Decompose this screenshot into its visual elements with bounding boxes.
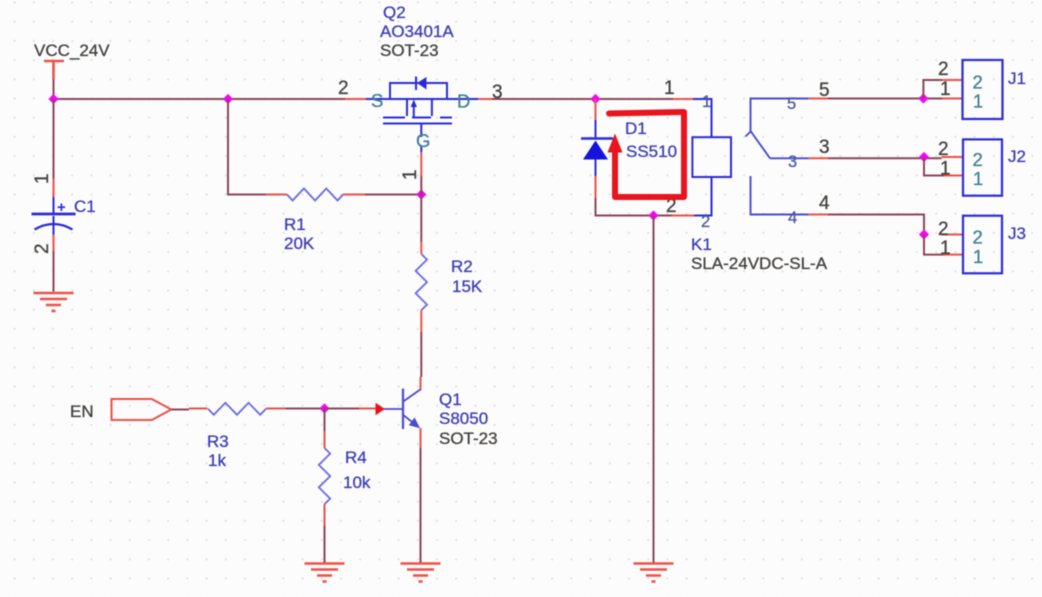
svg-text:+: +	[57, 199, 66, 216]
node junction D1 branch	[590, 94, 600, 104]
wire R1 to gate node	[365, 194, 421, 196]
svg-text:2: 2	[701, 213, 710, 231]
wire VCC stem	[53, 79, 55, 99]
pin lead R3 right	[266, 408, 285, 410]
node junction K1 ground branch	[648, 210, 658, 220]
annotation red arrow at base	[376, 403, 386, 415]
wire coil bottom to D1	[596, 198, 673, 216]
svg-text:1: 1	[940, 79, 951, 100]
node junction J3	[919, 229, 929, 239]
diode D1 triangle	[583, 141, 608, 160]
relay K1 coil	[692, 137, 731, 177]
svg-text:5: 5	[787, 95, 796, 113]
pin lead of R1 right	[343, 194, 365, 196]
wire gate to junction	[420, 176, 422, 195]
svg-text:2: 2	[938, 59, 949, 80]
wire coil pin1 blue	[693, 99, 712, 137]
pin lead K1 coil 2	[672, 215, 694, 217]
wire emitter to ground	[420, 448, 422, 564]
pin lead switch 4	[809, 214, 828, 216]
svg-text:D1: D1	[625, 119, 647, 138]
resistor R1	[287, 189, 343, 201]
resistor R4	[319, 448, 330, 504]
node junction at VCC	[48, 94, 58, 104]
svg-text:1: 1	[973, 168, 983, 189]
node junction R3/R4/base	[319, 403, 329, 413]
pin 1 of C1 (red lead)	[53, 179, 55, 198]
annotation red highlight loop	[609, 112, 684, 197]
pin lead of R1 left	[266, 194, 287, 196]
pin lead collector Q1	[420, 377, 422, 391]
wire main rail left	[54, 98, 346, 100]
svg-text:1: 1	[32, 173, 53, 184]
transistor Q1 NPN	[384, 389, 420, 430]
svg-text:1k: 1k	[208, 451, 226, 470]
wire R4 to ground	[324, 525, 326, 563]
svg-text:SOT-23: SOT-23	[439, 429, 498, 448]
svg-text:S8050: S8050	[439, 409, 488, 428]
capacitor C1	[32, 197, 76, 235]
svg-text:SLA-24VDC-SL-A: SLA-24VDC-SL-A	[691, 254, 828, 273]
svg-text:2: 2	[938, 219, 949, 240]
pin lead D of Q2	[478, 98, 492, 100]
pin lead R2 bottom	[420, 310, 422, 332]
wire junction to R2	[420, 195, 422, 243]
pin lead J3 pin2	[942, 234, 964, 236]
pin lead J2 pin1	[944, 175, 963, 177]
pin lead D1 bottom red	[595, 176, 597, 198]
svg-text:AO3401A: AO3401A	[380, 22, 454, 41]
svg-text:R3: R3	[207, 432, 229, 451]
svg-text:VCC_24V: VCC_24V	[34, 41, 110, 60]
transistor Q2 PMOS body	[366, 77, 478, 153]
svg-text:C1: C1	[74, 197, 96, 216]
pin lead J3 pin1	[943, 254, 963, 256]
wire junction to R4	[324, 409, 326, 432]
resistor R3	[208, 403, 266, 415]
ground below R4	[305, 564, 345, 582]
svg-text:SS510: SS510	[626, 142, 677, 161]
svg-text:R2: R2	[451, 257, 473, 276]
wire switch5 to J1	[828, 98, 942, 100]
svg-text:K1: K1	[691, 235, 712, 254]
pin lead switch 5	[809, 98, 828, 100]
svg-text:10k: 10k	[343, 473, 371, 492]
svg-text:1: 1	[973, 91, 983, 112]
svg-text:20K: 20K	[284, 234, 315, 253]
pin lead J2 pin2	[942, 156, 964, 158]
body diode arrow of Q2	[417, 77, 427, 90]
node junction J2	[919, 152, 929, 162]
pin lead R4 bottom	[324, 504, 326, 525]
pin lead D1 top red	[595, 99, 597, 120]
pin lead R4 top	[324, 431, 326, 448]
annotation red arrow head	[608, 134, 623, 153]
node junction J1	[918, 93, 928, 103]
node junction at R1 branch	[223, 94, 233, 104]
svg-text:2: 2	[338, 78, 349, 99]
wire R1 branch vertical	[228, 99, 266, 195]
svg-text:2: 2	[973, 227, 983, 248]
svg-text:3: 3	[788, 153, 797, 171]
svg-text:2: 2	[938, 139, 949, 160]
wire J1 branch up	[923, 80, 942, 99]
svg-text:1: 1	[940, 159, 951, 180]
svg-text:4: 4	[788, 209, 797, 227]
svg-text:1: 1	[400, 169, 421, 180]
relay K1 switch common	[746, 99, 809, 215]
power symbol VCC_24V bar	[44, 61, 64, 79]
connector J2	[963, 139, 1002, 195]
svg-text:J2: J2	[1008, 147, 1026, 166]
port EN symbol	[112, 399, 172, 420]
ground below K1	[634, 564, 674, 582]
connector J1	[963, 60, 1003, 119]
svg-text:1: 1	[664, 78, 675, 99]
wire coil pin2 blue	[694, 177, 712, 216]
pin lead J1 pin2	[942, 79, 963, 81]
wire R3 to junction	[285, 408, 324, 410]
svg-text:5: 5	[819, 80, 830, 101]
ground below Q1	[401, 564, 441, 582]
svg-text:G: G	[416, 130, 430, 151]
pin lead S of Q2	[345, 98, 366, 100]
svg-text:15K: 15K	[452, 277, 483, 296]
svg-text:Q2: Q2	[383, 3, 406, 22]
pin lead switch 3	[809, 157, 828, 159]
svg-text:2: 2	[32, 243, 53, 254]
pin lead R3 left	[189, 408, 208, 410]
wire C1 to ground	[53, 251, 55, 292]
pin lead emitter Q1	[420, 428, 422, 448]
pin lead G of Q2 red	[420, 152, 422, 176]
svg-text:Q1: Q1	[439, 390, 462, 409]
wire main rail middle	[492, 98, 673, 100]
svg-text:SOT-23: SOT-23	[380, 41, 439, 60]
svg-text:1: 1	[702, 93, 711, 111]
wire J3 branch down	[924, 235, 943, 255]
pin lead J1 pin1	[942, 98, 963, 100]
svg-text:EN: EN	[70, 402, 94, 421]
wire J2 branch down	[924, 157, 944, 176]
wire EN to R3	[171, 409, 189, 411]
svg-text:R4: R4	[345, 448, 367, 467]
pin lead base Q1	[359, 408, 376, 410]
svg-text:R1: R1	[284, 215, 306, 234]
pin 2 of C1 (red lead)	[53, 235, 55, 252]
wire switch3 to J2	[828, 157, 942, 159]
substrate arrow of Q2	[411, 100, 417, 108]
node junction gate/R1/R2	[416, 189, 426, 199]
svg-text:2: 2	[973, 72, 983, 93]
svg-text:3: 3	[819, 137, 830, 158]
svg-text:4: 4	[819, 193, 830, 214]
pin lead K1 coil 1	[673, 98, 693, 100]
svg-text:S: S	[371, 90, 383, 111]
resistor R2	[416, 254, 427, 310]
wire K1 to ground	[653, 216, 655, 564]
svg-text:J1: J1	[1008, 69, 1026, 88]
svg-text:J3: J3	[1008, 224, 1026, 243]
ground below C1	[34, 293, 74, 311]
connector J3	[963, 216, 1002, 274]
wire R2 to Q1 collector	[420, 332, 422, 377]
pin lead R2 top	[420, 242, 422, 254]
wire switch4 to J3	[828, 215, 924, 235]
diode D1	[581, 120, 613, 176]
svg-text:1: 1	[940, 238, 951, 259]
svg-text:D: D	[457, 91, 470, 112]
svg-text:2: 2	[973, 149, 983, 170]
wire C1 top lead dark	[53, 99, 55, 179]
svg-text:1: 1	[973, 246, 983, 267]
emitter arrow of Q1	[409, 417, 420, 428]
wire junction to base	[325, 408, 360, 410]
